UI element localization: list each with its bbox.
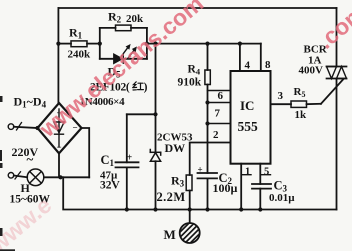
junction bridge plus / R1 <box>56 42 60 46</box>
resistor R4 <box>207 44 209 70</box>
svg-text:1k: 1k <box>295 109 308 121</box>
junction rail / pin 1 <box>239 207 243 211</box>
svg-text:5: 5 <box>264 167 269 178</box>
svg-text:7: 7 <box>215 108 221 120</box>
wire top rail <box>58 7 336 9</box>
wire ground rail left leg <box>63 177 336 209</box>
wire C1 column upper <box>126 114 128 162</box>
pin 7 stub <box>208 123 231 125</box>
wire R1 to box <box>87 43 100 45</box>
svg-text:R2: R2 <box>108 10 122 25</box>
wire bridge bottom column <box>58 153 60 177</box>
svg-text:R4: R4 <box>188 64 201 77</box>
terminal bottom <box>8 173 14 179</box>
resistor R1 <box>71 41 87 47</box>
svg-text:400V: 400V <box>299 65 324 77</box>
triac BCR <box>327 67 347 79</box>
svg-text:20k: 20k <box>126 13 144 25</box>
junction rail / R3 / motor <box>188 207 192 211</box>
junction R2-D5 box right <box>145 42 149 46</box>
wire bridge minus out <box>82 128 90 177</box>
junction bridge left vertex <box>35 126 39 130</box>
pin 2 wire <box>190 143 231 176</box>
pin 4 wire <box>239 44 241 71</box>
pin 1 wire <box>240 164 242 210</box>
wire box right edge <box>146 28 148 59</box>
wire C1 top horizontal <box>127 113 156 115</box>
svg-text:555: 555 <box>238 119 259 134</box>
resistor R2 <box>116 25 132 31</box>
wire zener column upper <box>155 44 157 152</box>
wire box left edge <box>99 28 101 59</box>
svg-text:+: + <box>198 165 203 175</box>
svg-text:240k: 240k <box>68 49 92 61</box>
svg-text:M: M <box>164 227 176 242</box>
svg-text:910k: 910k <box>178 77 202 89</box>
svg-text:D1~D4: D1~D4 <box>14 95 47 110</box>
junction rail / C3 <box>258 207 262 211</box>
wire zener column lower <box>155 161 157 209</box>
junction rail / zener <box>153 207 157 211</box>
junction C1 / zener column <box>153 112 157 116</box>
pin 6 stub <box>208 90 231 92</box>
svg-text:DW: DW <box>165 141 186 155</box>
wire lamp to bridge <box>44 176 89 178</box>
pin 3 wire <box>271 103 292 105</box>
scan artifacts left edge <box>0 96 15 251</box>
LED D5 <box>114 45 136 63</box>
wire main vcc horizontal left <box>58 43 71 45</box>
pin 8 wire <box>260 44 262 71</box>
svg-text:+: + <box>127 153 133 164</box>
capacitor C1 <box>116 162 139 167</box>
svg-text:0.01µ: 0.01µ <box>269 192 295 204</box>
junction rail / C2 <box>205 207 209 211</box>
bridge internal diode <box>54 109 64 147</box>
junction rail / C1 <box>125 207 129 211</box>
svg-text:6: 6 <box>218 90 224 102</box>
resistor R3 <box>186 175 192 191</box>
capacitor C2 <box>198 173 218 178</box>
svg-text:100µ: 100µ <box>213 181 238 195</box>
capacitor C3 <box>252 184 271 189</box>
resistor R5 <box>291 101 307 107</box>
svg-text:220V: 220V <box>12 145 39 159</box>
svg-text:C1: C1 <box>101 153 115 168</box>
wire right column upper <box>336 8 338 67</box>
wire main vcc horizontal right <box>147 43 261 45</box>
wire box top branch <box>100 27 116 29</box>
terminal top <box>8 124 14 130</box>
junction lamp wire / bridge bottom <box>58 175 62 179</box>
junction vcc / zener column <box>153 42 157 46</box>
pin 5 wire <box>259 164 261 184</box>
svg-text:R3: R3 <box>171 174 185 189</box>
svg-text:4: 4 <box>245 60 251 72</box>
svg-text:R5: R5 <box>294 86 306 99</box>
junction R1 / R2-D5 box left <box>98 42 102 46</box>
svg-text:−: − <box>73 123 78 133</box>
junction pin 6 / R4 column <box>205 100 209 104</box>
svg-text:32V: 32V <box>100 180 121 192</box>
IC 555 box <box>231 71 271 164</box>
svg-text:2.2M: 2.2M <box>157 190 186 204</box>
motor M <box>189 210 191 224</box>
svg-text:1: 1 <box>245 167 250 178</box>
svg-text:~: ~ <box>27 152 34 167</box>
svg-text:2: 2 <box>213 129 219 141</box>
wire R2 right <box>131 27 147 29</box>
wire left column <box>57 8 59 103</box>
wire R5 to gate <box>307 103 321 105</box>
svg-text:IC: IC <box>240 98 254 113</box>
bridge rectifier D1-D4 diamond <box>38 103 82 153</box>
zener diode DW <box>150 150 160 162</box>
lamp H <box>27 169 44 186</box>
wire right column lower <box>336 79 338 210</box>
junction vcc / R4 <box>205 42 209 46</box>
wire C1 column lower <box>126 167 128 209</box>
junction pin 7 / R4 column <box>205 121 209 125</box>
svg-text:8: 8 <box>265 59 271 71</box>
junction vcc / pin 4 <box>238 42 242 46</box>
svg-text:R1: R1 <box>69 26 83 41</box>
svg-text:): ) <box>144 82 148 94</box>
svg-text:−: − <box>57 142 62 152</box>
wire box bottom branch <box>100 58 147 60</box>
svg-text:3: 3 <box>278 90 284 102</box>
